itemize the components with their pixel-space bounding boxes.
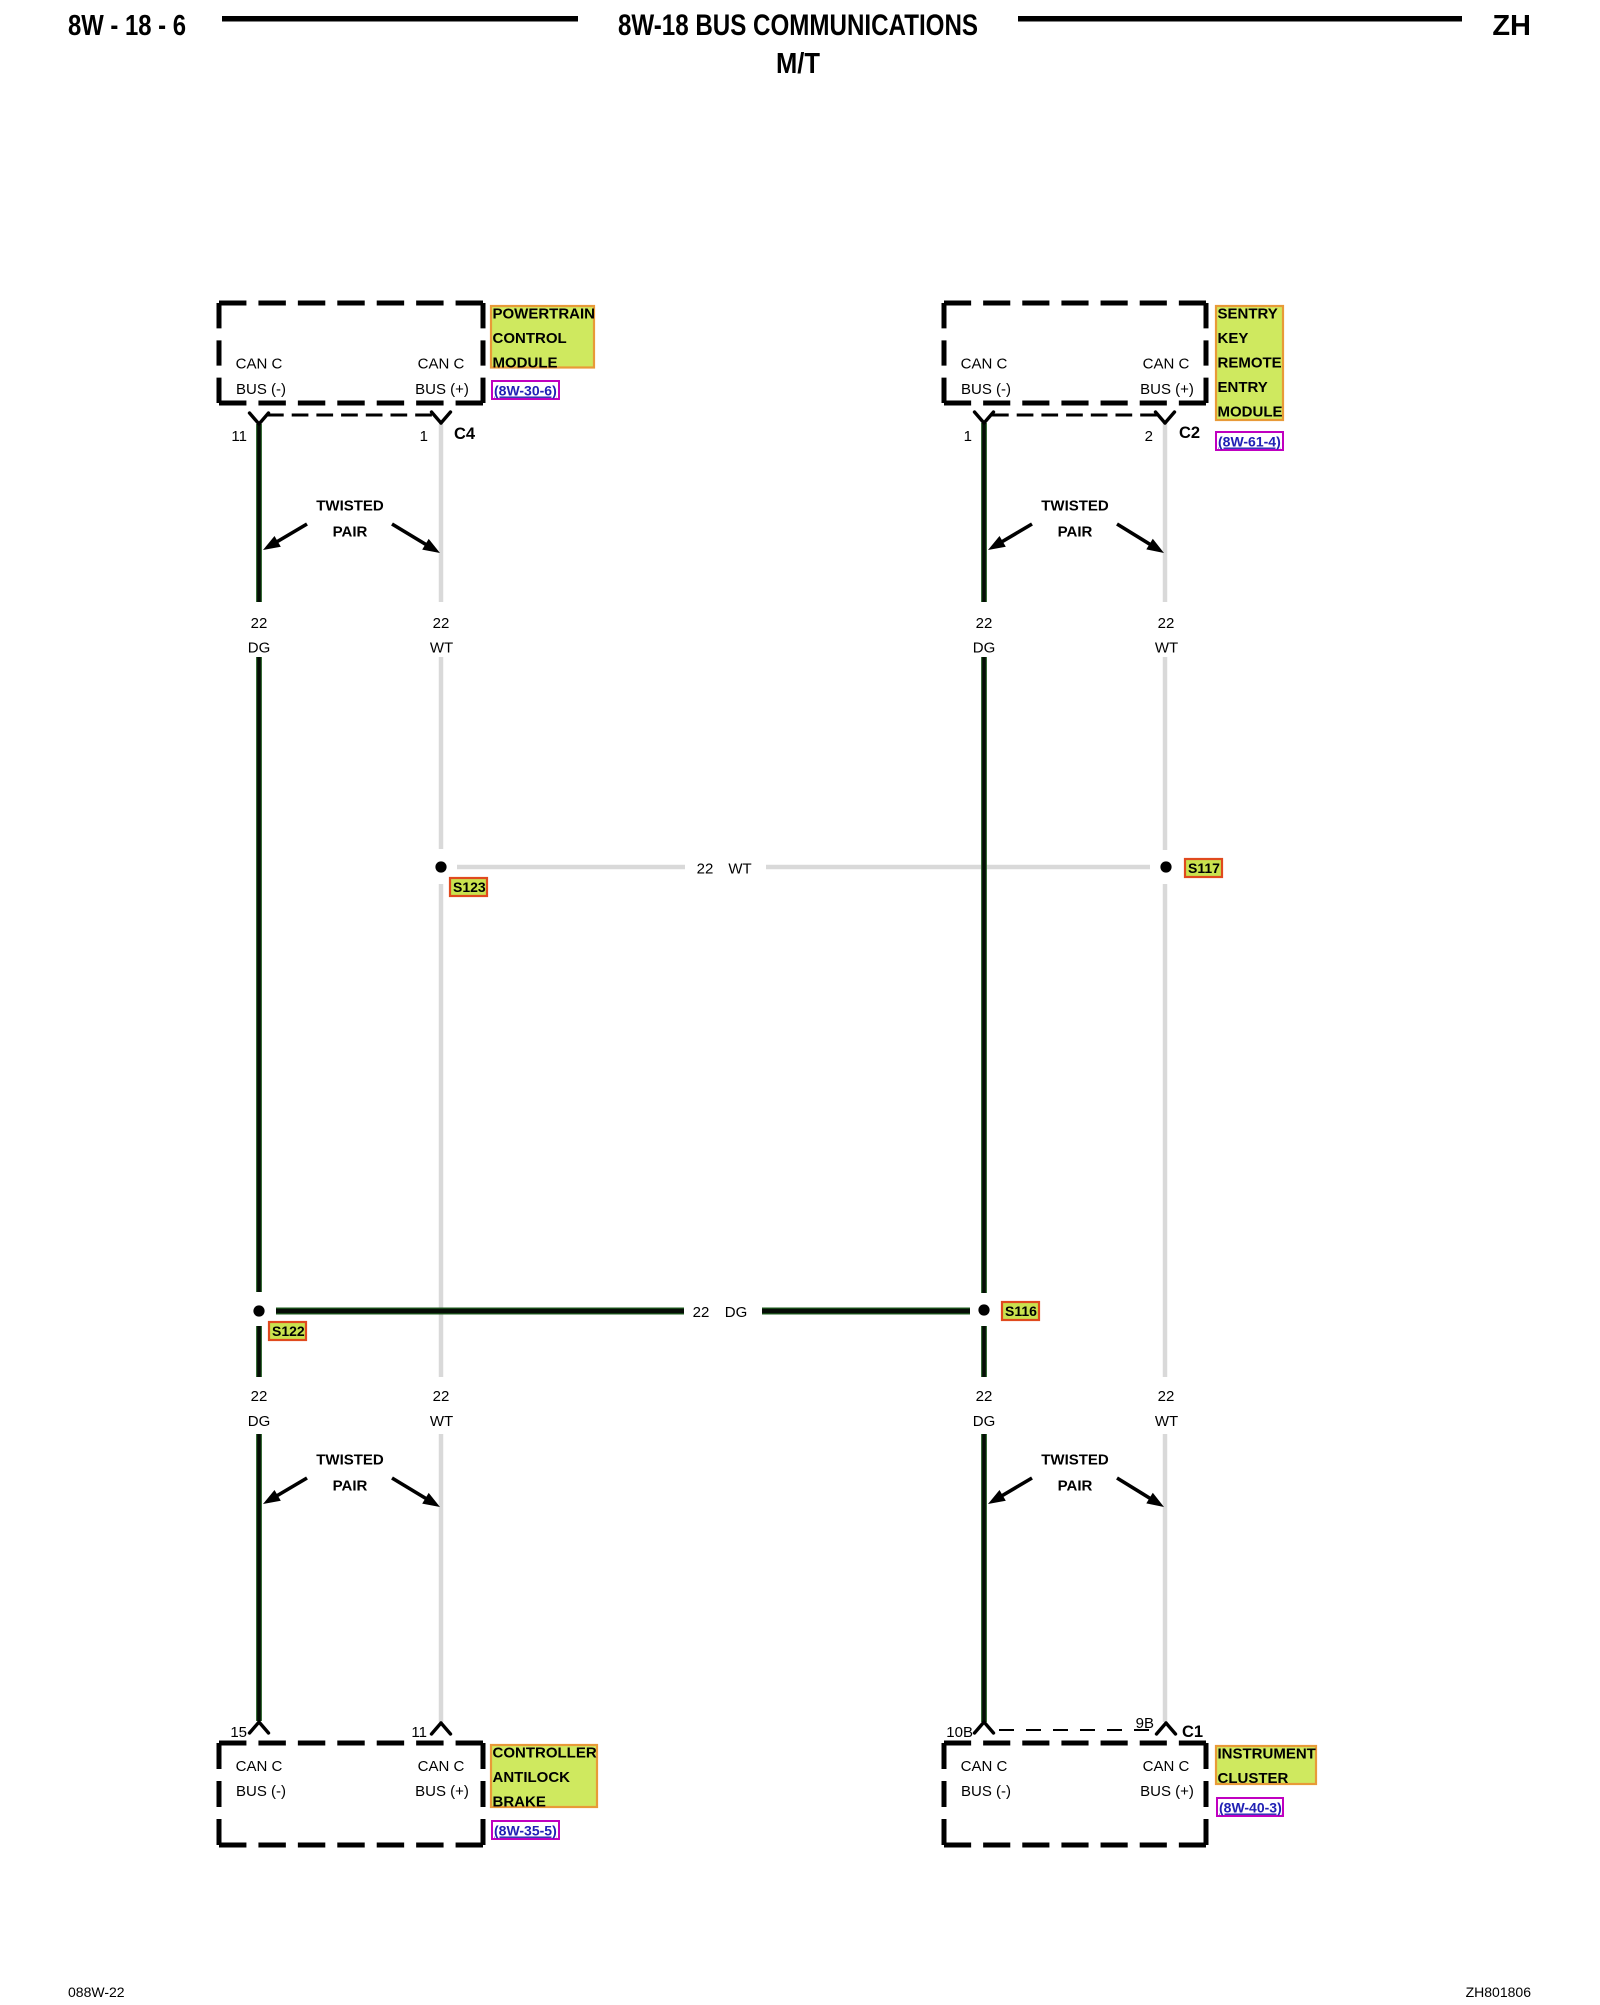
svg-text:PAIR: PAIR: [1058, 524, 1093, 541]
svg-text:CAN C: CAN C: [418, 356, 465, 373]
svg-text:PAIR: PAIR: [333, 1478, 368, 1495]
svg-text:POWERTRAIN: POWERTRAIN: [493, 306, 596, 323]
svg-text:DG: DG: [973, 1413, 996, 1430]
svg-text:MODULE: MODULE: [1218, 404, 1283, 421]
svg-text:22: 22: [1158, 1388, 1175, 1405]
svg-text:BUS (-): BUS (-): [961, 1783, 1011, 1800]
svg-text:BUS (+): BUS (+): [1140, 1783, 1194, 1800]
svg-text:15: 15: [230, 1724, 247, 1741]
svg-text:WT: WT: [1155, 1413, 1178, 1430]
svg-text:CLUSTER: CLUSTER: [1218, 1770, 1289, 1787]
svg-text:11: 11: [411, 1724, 427, 1741]
svg-text:(8W-30-6): (8W-30-6): [494, 383, 557, 399]
svg-text:22: 22: [251, 1388, 268, 1405]
svg-text:CAN C: CAN C: [236, 356, 283, 373]
svg-text:ZH: ZH: [1492, 10, 1531, 42]
svg-text:22: 22: [433, 615, 450, 632]
svg-text:TWISTED: TWISTED: [1041, 498, 1109, 515]
svg-text:KEY: KEY: [1218, 330, 1249, 347]
svg-text:S117: S117: [1188, 860, 1220, 876]
svg-text:MODULE: MODULE: [493, 355, 558, 372]
svg-text:CAN C: CAN C: [961, 1758, 1008, 1775]
svg-text:WT: WT: [728, 861, 751, 878]
svg-text:22: 22: [433, 1388, 450, 1405]
svg-text:DG: DG: [248, 640, 271, 657]
svg-text:PAIR: PAIR: [333, 524, 368, 541]
svg-text:22: 22: [976, 1388, 993, 1405]
svg-text:22: 22: [251, 615, 268, 632]
svg-text:DG: DG: [725, 1304, 748, 1321]
svg-text:1: 1: [964, 428, 972, 445]
svg-text:CONTROL: CONTROL: [493, 330, 567, 347]
svg-text:(8W-35-5): (8W-35-5): [494, 1823, 557, 1839]
svg-text:DG: DG: [248, 1413, 271, 1430]
svg-text:BUS (+): BUS (+): [415, 1783, 469, 1800]
svg-text:BRAKE: BRAKE: [493, 1794, 546, 1811]
svg-text:11: 11: [231, 428, 247, 445]
svg-text:S123: S123: [453, 879, 486, 895]
svg-text:ANTILOCK: ANTILOCK: [493, 1769, 571, 1786]
svg-text:ZH801806: ZH801806: [1466, 1984, 1532, 2000]
svg-text:TWISTED: TWISTED: [1041, 1452, 1109, 1469]
svg-text:S116: S116: [1005, 1303, 1037, 1319]
svg-text:(8W-61-4): (8W-61-4): [1218, 434, 1281, 450]
svg-text:WT: WT: [430, 1413, 453, 1430]
svg-text:22: 22: [697, 861, 714, 878]
svg-text:22: 22: [693, 1304, 710, 1321]
svg-text:C2: C2: [1179, 424, 1200, 442]
svg-text:8W - 18 - 6: 8W - 18 - 6: [68, 10, 186, 42]
svg-text:BUS (-): BUS (-): [961, 381, 1011, 398]
svg-text:REMOTE: REMOTE: [1218, 355, 1282, 372]
svg-text:WT: WT: [430, 640, 453, 657]
svg-text:1: 1: [420, 428, 428, 445]
svg-text:C1: C1: [1182, 1723, 1203, 1741]
svg-text:BUS (-): BUS (-): [236, 381, 286, 398]
svg-text:CAN C: CAN C: [236, 1758, 283, 1775]
svg-text:8W-18 BUS COMMUNICATIONS: 8W-18 BUS COMMUNICATIONS: [618, 9, 978, 42]
svg-text:TWISTED: TWISTED: [316, 1452, 384, 1469]
svg-text:10B: 10B: [946, 1724, 973, 1741]
svg-text:088W-22: 088W-22: [68, 1984, 125, 2000]
svg-text:CAN C: CAN C: [418, 1758, 465, 1775]
svg-text:CONTROLLER: CONTROLLER: [493, 1745, 597, 1762]
svg-text:TWISTED: TWISTED: [316, 498, 384, 515]
svg-text:M/T: M/T: [776, 48, 820, 80]
svg-text:(8W-40-3): (8W-40-3): [1219, 1800, 1282, 1816]
svg-text:BUS (-): BUS (-): [236, 1783, 286, 1800]
svg-text:BUS (+): BUS (+): [415, 381, 469, 398]
svg-text:22: 22: [976, 615, 993, 632]
svg-text:CAN C: CAN C: [1143, 1758, 1190, 1775]
svg-text:SENTRY: SENTRY: [1218, 306, 1278, 323]
svg-text:BUS (+): BUS (+): [1140, 381, 1194, 398]
svg-text:INSTRUMENT: INSTRUMENT: [1218, 1746, 1316, 1763]
svg-text:DG: DG: [973, 640, 996, 657]
svg-text:22: 22: [1158, 615, 1175, 632]
svg-text:CAN C: CAN C: [961, 356, 1008, 373]
svg-text:2: 2: [1145, 428, 1153, 445]
svg-text:9B: 9B: [1136, 1715, 1154, 1732]
svg-text:C4: C4: [454, 425, 476, 443]
svg-text:WT: WT: [1155, 640, 1178, 657]
svg-text:S122: S122: [272, 1323, 305, 1339]
svg-text:CAN C: CAN C: [1143, 356, 1190, 373]
svg-text:PAIR: PAIR: [1058, 1478, 1093, 1495]
svg-text:ENTRY: ENTRY: [1218, 379, 1268, 396]
